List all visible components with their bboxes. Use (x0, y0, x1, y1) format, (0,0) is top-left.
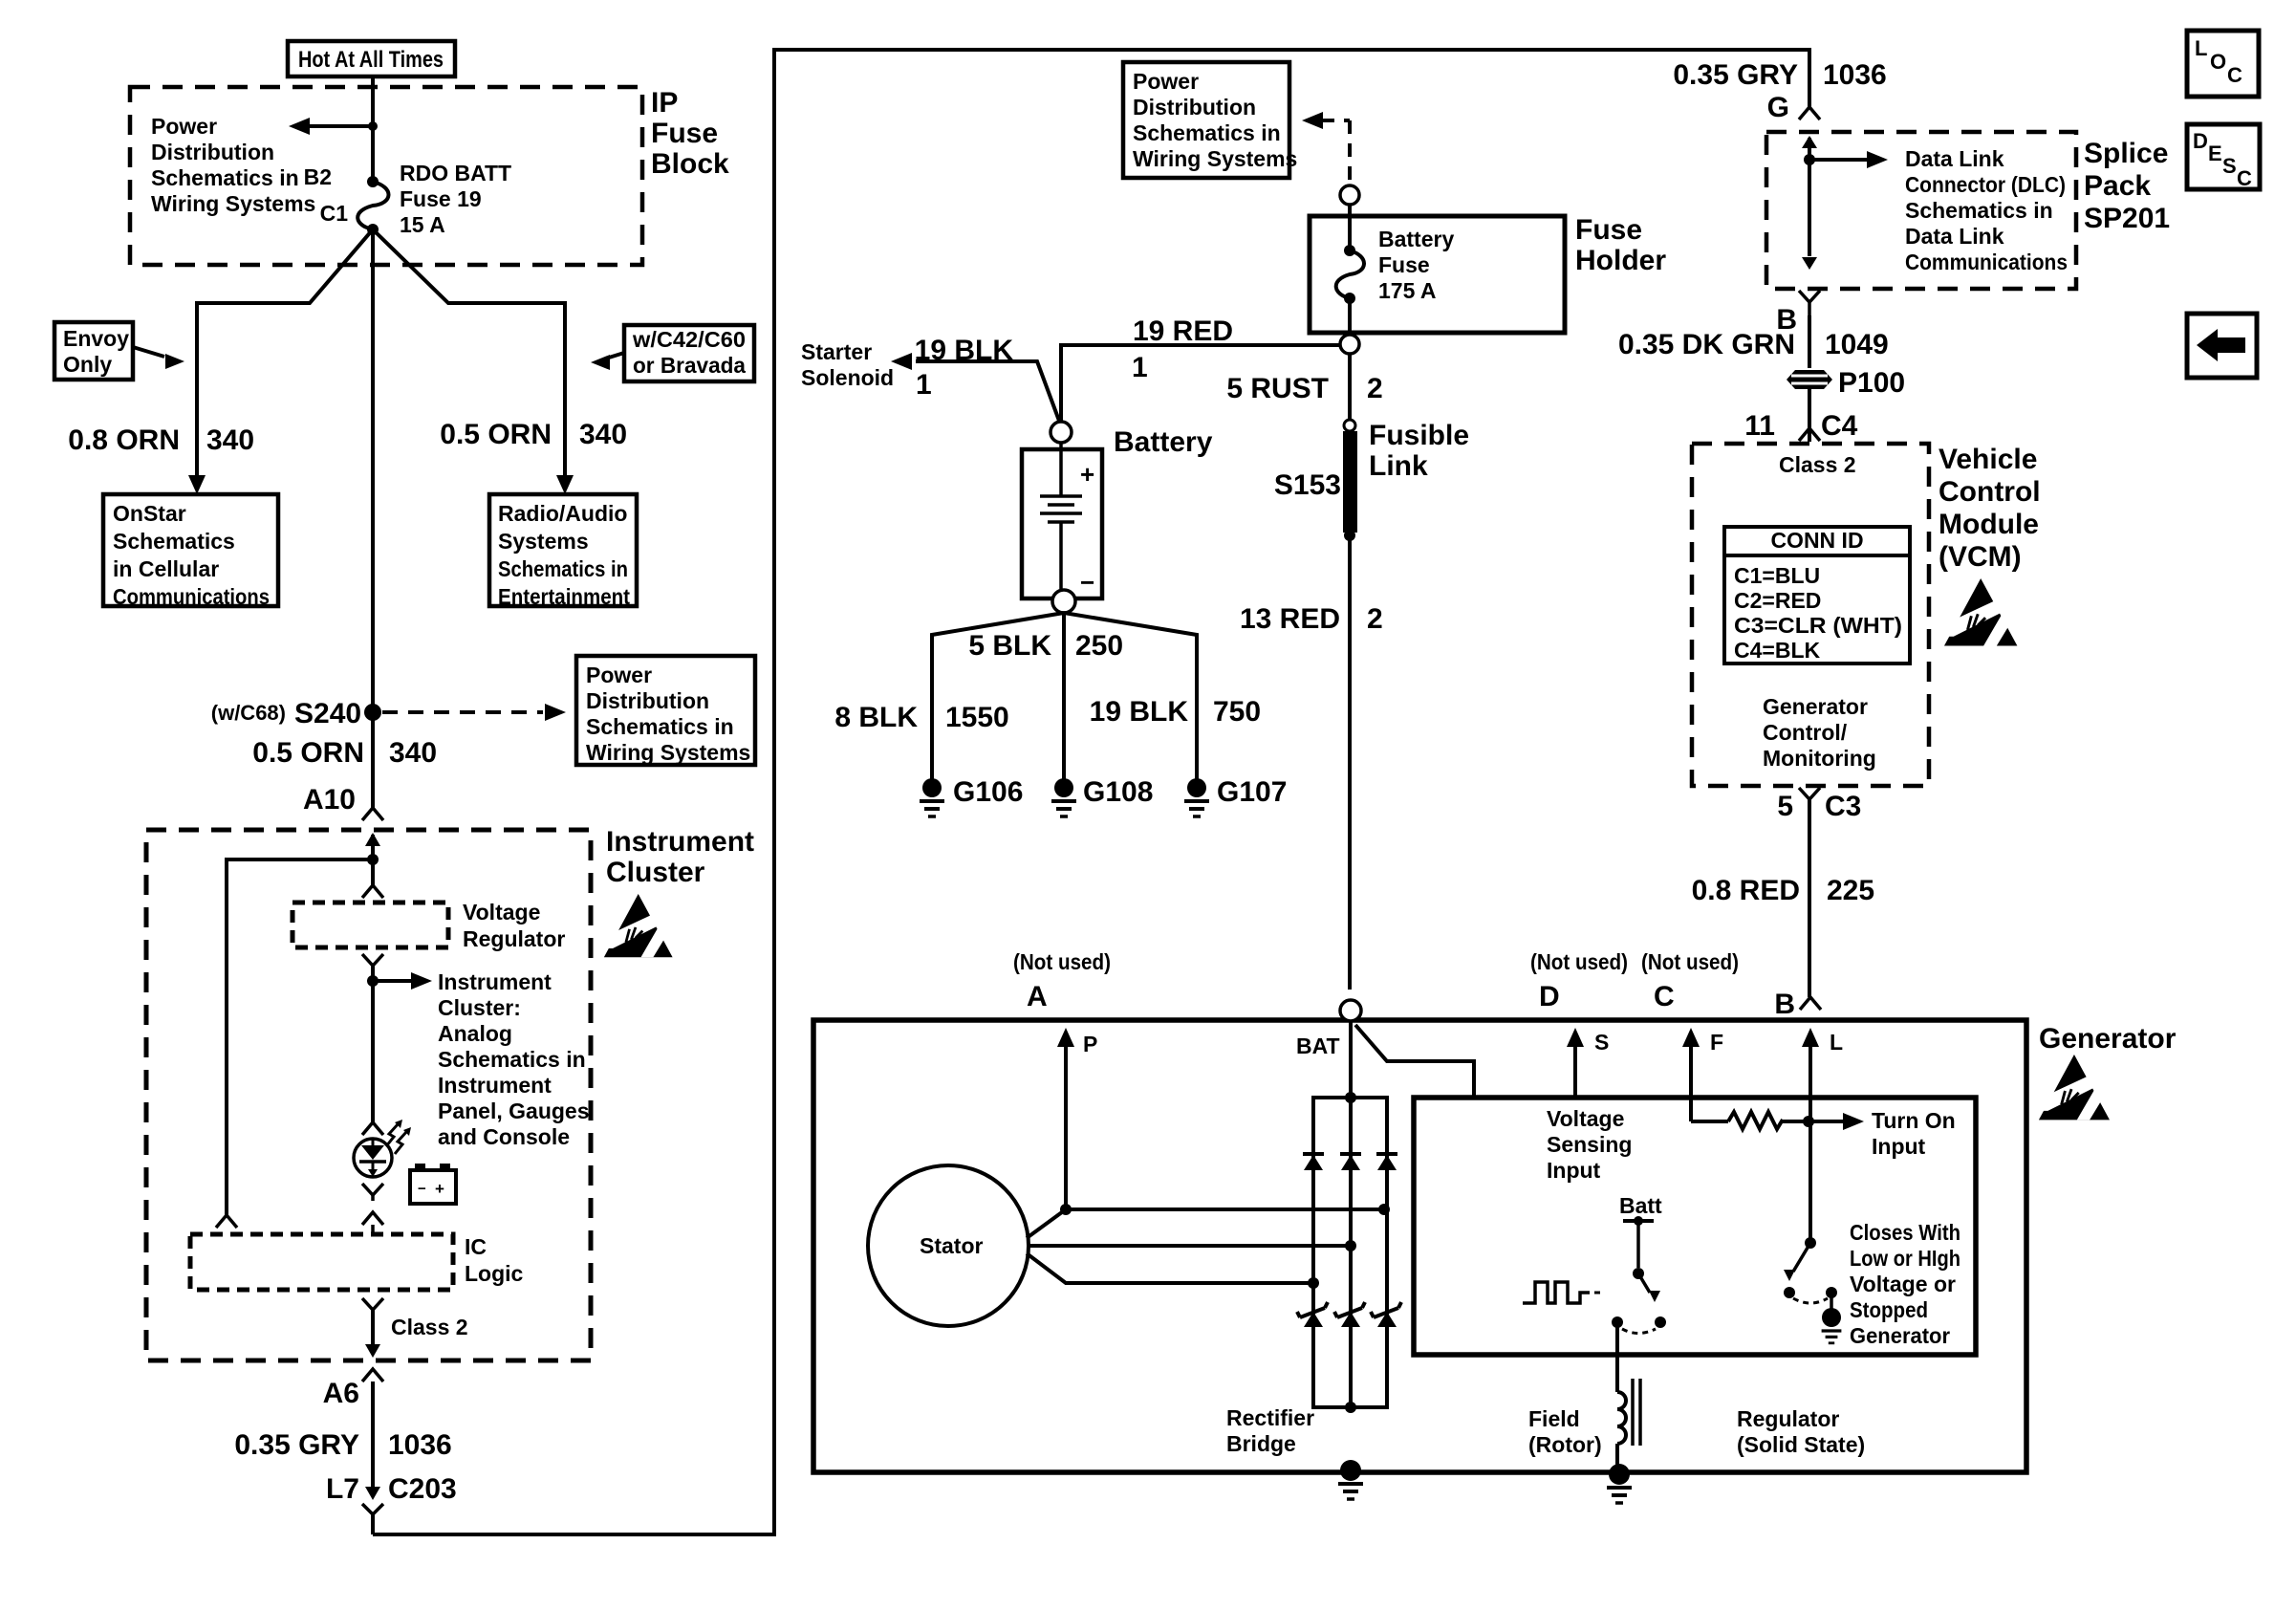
svg-text:Schematics in: Schematics in (1133, 120, 1281, 145)
field coil wire (1615, 1322, 1619, 1392)
ground G107 (1187, 778, 1206, 797)
svg-text:G108: G108 (1083, 776, 1153, 808)
svg-text:1036: 1036 (1823, 59, 1887, 91)
wire from C203 to splice pack G (long frame) (373, 50, 1809, 1534)
node Envoy Only (54, 322, 133, 380)
svg-text:Holder: Holder (1575, 245, 1666, 276)
svg-text:w/C42/C60: w/C42/C60 (632, 327, 746, 352)
wire to P100 (1808, 315, 1811, 368)
node LOC box (2187, 31, 2259, 97)
ground (rectifier/BAT) (1340, 1460, 1361, 1481)
svg-text:0.35 GRY: 0.35 GRY (1673, 59, 1798, 91)
node w/C42/C60 or Bravada (624, 325, 754, 381)
svg-text:Schematics in: Schematics in (151, 165, 299, 190)
svg-text:−: − (418, 1181, 426, 1197)
svg-text:Link: Link (1369, 450, 1428, 482)
battery B+ (1022, 449, 1102, 598)
svg-text:Connector (DLC): Connector (DLC) (1905, 172, 2066, 197)
svg-text:P: P (1083, 1032, 1097, 1056)
svg-text:Panel, Gauges: Panel, Gauges (438, 1099, 590, 1123)
svg-text:Instrument: Instrument (606, 826, 754, 858)
svg-text:13 RED: 13 RED (1240, 603, 1340, 635)
svg-text:Analog: Analog (438, 1021, 512, 1046)
svg-text:(w/C68): (w/C68) (211, 701, 286, 725)
svg-text:O: O (2210, 50, 2226, 74)
node OnStar Schematics in Cellular Communications (103, 494, 278, 606)
rectifier diodes bottom row (avalanche) (1297, 1302, 1328, 1317)
svg-text:Sensing: Sensing (1547, 1132, 1632, 1157)
svg-text:0.5 ORN: 0.5 ORN (252, 737, 364, 769)
svg-text:C: C (2227, 63, 2242, 87)
connector P100 grommet (1787, 370, 1832, 389)
switch (field drive) (1636, 1221, 1640, 1268)
wire below P100 (1808, 389, 1811, 442)
svg-text:L: L (2195, 36, 2207, 60)
svg-text:RDO BATT: RDO BATT (400, 161, 511, 185)
switch (closes with low/high voltage) (1805, 1237, 1816, 1249)
svg-text:Regulator: Regulator (1737, 1406, 1839, 1431)
battery charge telltale icon (410, 1170, 456, 1204)
svg-text:and Console: and Console (438, 1124, 570, 1149)
wire C1 right branch to Radio (373, 229, 565, 480)
svg-text:Cluster: Cluster (606, 857, 705, 888)
svg-text:Turn On: Turn On (1872, 1108, 1956, 1133)
ground G108 (1054, 778, 1073, 797)
svg-text:Stator: Stator (920, 1233, 984, 1258)
node CONN ID table (1724, 527, 1910, 664)
F arrow (1689, 1037, 1693, 1098)
connector into VCM (1799, 428, 1820, 441)
svg-text:1049: 1049 (1825, 329, 1889, 360)
svg-text:CONN ID: CONN ID (1770, 528, 1863, 553)
svg-text:Data Link: Data Link (1905, 224, 2004, 249)
connector A10 (362, 808, 383, 820)
wire 19 RED (1061, 345, 1340, 422)
svg-text:225: 225 (1827, 875, 1874, 906)
PWM control glyph (1523, 1282, 1590, 1303)
svg-text:C4=BLK: C4=BLK (1734, 638, 1820, 663)
svg-text:250: 250 (1075, 630, 1123, 662)
wire BAT to regulator (1355, 1025, 1474, 1098)
svg-text:Generator: Generator (1850, 1323, 1950, 1348)
svg-text:Schematics: Schematics (113, 529, 235, 554)
svg-text:Fuse 19: Fuse 19 (400, 186, 482, 211)
node Radio/Audio Systems Schematics in Entertainment (489, 494, 637, 606)
svg-text:Generator: Generator (2039, 1023, 2177, 1055)
svg-text:Battery: Battery (1114, 426, 1213, 458)
svg-text:Starter: Starter (801, 339, 872, 364)
svg-text:Pack: Pack (2084, 170, 2151, 202)
L arrow (1809, 1037, 1812, 1098)
battery bottom terminal (1052, 590, 1075, 613)
connector below voltage regulator (362, 954, 383, 966)
svg-text:340: 340 (206, 424, 254, 456)
node back-arrow box (2187, 314, 2257, 378)
svg-text:Distribution: Distribution (586, 688, 709, 713)
connector ring below fuse holder (1340, 335, 1359, 354)
svg-text:(Rotor): (Rotor) (1528, 1432, 1602, 1457)
svg-text:Class 2: Class 2 (1779, 452, 1856, 477)
svg-text:Block: Block (651, 148, 729, 180)
svg-text:C1: C1 (320, 201, 349, 226)
junction and left branch inside cluster (367, 854, 379, 865)
svg-text:A: A (1027, 981, 1048, 1012)
ESD symbol (instrument cluster) (602, 894, 673, 957)
svg-text:C1=BLU: C1=BLU (1734, 563, 1820, 588)
connector G (1799, 107, 1820, 120)
fuse Battery Fuse 175 A (1348, 205, 1352, 250)
svg-text:750: 750 (1213, 696, 1261, 728)
rectifier diodes top row (1303, 1152, 1324, 1156)
svg-text:Control/: Control/ (1763, 720, 1848, 745)
svg-text:Rectifier: Rectifier (1226, 1405, 1314, 1430)
resistor and turn-on input (1689, 1098, 1693, 1121)
wire Envoy arrow (133, 347, 164, 357)
svg-text:Bridge: Bridge (1226, 1431, 1296, 1456)
svg-text:G: G (1767, 92, 1789, 123)
wire Bravada arrow (609, 353, 624, 358)
svg-text:Distribution: Distribution (151, 140, 274, 164)
svg-text:8 BLK: 8 BLK (834, 702, 918, 733)
node Power Distribution Schematics in Wiring Systems (S240) (576, 656, 755, 765)
svg-text:1: 1 (1132, 352, 1148, 383)
connector below VCM (1799, 788, 1820, 799)
svg-text:G106: G106 (953, 776, 1023, 808)
svg-text:340: 340 (579, 419, 627, 450)
svg-text:L7: L7 (326, 1473, 359, 1505)
node Voltage Regulator (solid state) box (1414, 1098, 1976, 1355)
connector below splice pack (1799, 291, 1820, 302)
battery cell plates (1059, 443, 1063, 496)
svg-text:C3=CLR (WHT): C3=CLR (WHT) (1734, 613, 1902, 638)
svg-text:Entertainment: Entertainment (498, 584, 630, 609)
svg-text:L: L (1830, 1030, 1843, 1055)
svg-text:Schematics in: Schematics in (1905, 198, 2053, 223)
svg-text:Systems: Systems (498, 529, 589, 554)
svg-text:C: C (1654, 981, 1675, 1012)
svg-text:Radio/Audio: Radio/Audio (498, 501, 627, 526)
svg-text:S240: S240 (294, 698, 361, 729)
svg-text:1: 1 (916, 369, 932, 401)
svg-text:Input: Input (1547, 1158, 1601, 1183)
svg-text:E: E (2208, 141, 2222, 165)
svg-text:Low or HIgh: Low or HIgh (1850, 1246, 1960, 1271)
svg-text:C3: C3 (1825, 791, 1861, 822)
svg-text:Wiring Systems: Wiring Systems (151, 191, 315, 216)
node Generator box (813, 1020, 2026, 1472)
wire dashed to power distribution (fuse holder) (1302, 112, 1323, 129)
LED indicator symbol (354, 1139, 392, 1177)
svg-text:Fuse: Fuse (1575, 214, 1642, 246)
svg-text:Cluster:: Cluster: (438, 995, 521, 1020)
svg-text:2: 2 (1367, 603, 1383, 635)
ground G106 (922, 778, 942, 797)
wire to fusible link (1348, 354, 1352, 421)
field coil (1617, 1392, 1626, 1444)
node Power Distribution Schematics in Wiring Systems (fuse holder) (1123, 62, 1289, 178)
ESD symbol (generator) (2037, 1055, 2110, 1120)
svg-text:1550: 1550 (945, 702, 1009, 733)
connector left branch (216, 1215, 237, 1228)
wire battery grounds (932, 613, 1064, 779)
node Vehicle Control Module dashed box (1692, 444, 1929, 786)
svg-text:S: S (2222, 154, 2237, 178)
svg-text:−: − (1080, 568, 1094, 597)
svg-text:S: S (1594, 1030, 1609, 1055)
battery top terminal (1051, 422, 1072, 443)
svg-text:15 A: 15 A (400, 212, 445, 237)
svg-text:Wiring Systems: Wiring Systems (1133, 146, 1297, 171)
svg-text:Voltage or: Voltage or (1850, 1272, 1956, 1296)
svg-text:19 RED: 19 RED (1133, 315, 1233, 347)
svg-text:D: D (1539, 981, 1560, 1012)
svg-text:Monitoring: Monitoring (1763, 746, 1876, 771)
svg-text:Input: Input (1872, 1134, 1926, 1159)
wire C1 left branch to OnStar (197, 229, 373, 480)
svg-text:A10: A10 (303, 784, 356, 816)
svg-text:C4: C4 (1821, 410, 1858, 442)
node Fuse Holder box (1310, 216, 1565, 333)
fuse RDO BATT Fuse 19 15 A (367, 176, 379, 187)
svg-text:or Bravada: or Bravada (633, 353, 746, 378)
IP Fuse Block dashed box (130, 87, 642, 265)
ground (field) (1609, 1464, 1630, 1485)
node Voltage Regulator dashed box (292, 903, 448, 947)
svg-text:340: 340 (389, 737, 437, 769)
wire 13 RED (1348, 538, 1352, 990)
svg-text:G107: G107 (1217, 776, 1287, 808)
svg-text:Schematics in: Schematics in (438, 1047, 586, 1072)
wire dashed arrow S240 to power distribution (382, 710, 543, 714)
svg-text:Fuse: Fuse (1378, 252, 1430, 277)
svg-text:(Not used): (Not used) (1530, 949, 1628, 974)
svg-text:5: 5 (1777, 791, 1793, 822)
S arrow (1573, 1037, 1577, 1098)
svg-text:Power: Power (151, 114, 217, 139)
stator phase wires (1027, 1209, 1384, 1238)
svg-text:IC: IC (465, 1234, 487, 1259)
svg-text:Instrument: Instrument (438, 1073, 552, 1098)
wire inside splice pack (1802, 136, 1817, 148)
svg-text:B: B (1774, 989, 1795, 1020)
svg-text:IP: IP (651, 87, 678, 119)
svg-text:Distribution: Distribution (1133, 95, 1256, 120)
svg-text:Module: Module (1939, 509, 2039, 540)
svg-text:Generator: Generator (1763, 694, 1868, 719)
svg-text:Closes With: Closes With (1850, 1220, 1960, 1245)
svg-text:A6: A6 (323, 1378, 359, 1409)
svg-text:0.8 ORN: 0.8 ORN (68, 424, 180, 456)
svg-text:Batt: Batt (1619, 1193, 1662, 1218)
svg-text:+: + (435, 1180, 444, 1198)
P arrow (1064, 1037, 1068, 1209)
svg-text:OnStar: OnStar (113, 501, 186, 526)
wire to voltage regulator (371, 859, 375, 885)
svg-text:C203: C203 (388, 1473, 457, 1505)
svg-text:5 BLK: 5 BLK (968, 630, 1051, 662)
rectifier bridge rails (1313, 1098, 1387, 1407)
svg-text:Fusible: Fusible (1369, 420, 1469, 451)
svg-text:0.35 DK GRN: 0.35 DK GRN (1618, 329, 1795, 360)
svg-text:1036: 1036 (388, 1429, 452, 1461)
svg-text:(VCM): (VCM) (1939, 541, 2022, 573)
svg-text:Wiring Systems: Wiring Systems (586, 740, 750, 765)
wire C1 center down (371, 229, 375, 808)
svg-text:0.5 ORN: 0.5 ORN (440, 419, 552, 450)
svg-text:(Not used): (Not used) (1641, 949, 1739, 974)
svg-text:Instrument: Instrument (438, 969, 552, 994)
svg-text:Voltage: Voltage (1547, 1106, 1624, 1131)
svg-text:B2: B2 (304, 164, 332, 189)
svg-text:Power: Power (586, 663, 652, 687)
node IC Logic dashed box (190, 1234, 453, 1290)
svg-text:BAT: BAT (1296, 1033, 1340, 1058)
wire A6 down (362, 1369, 383, 1382)
svg-text:D: D (2193, 129, 2208, 153)
svg-text:Schematics in: Schematics in (498, 556, 628, 581)
LED light arrows (386, 1123, 399, 1146)
Instrument Cluster dashed box (146, 830, 591, 1360)
svg-text:C: C (2237, 166, 2252, 190)
wire arrow to power distribution (308, 124, 373, 128)
node Hot At All Times (288, 41, 455, 76)
svg-text:11: 11 (1744, 410, 1775, 442)
svg-text:Voltage: Voltage (463, 900, 540, 925)
svg-text:Solenoid: Solenoid (801, 365, 894, 390)
svg-text:(Not used): (Not used) (1013, 949, 1111, 974)
svg-text:+: + (1080, 460, 1094, 489)
svg-text:Class 2: Class 2 (391, 1315, 468, 1339)
connector C203 (365, 1487, 380, 1500)
wire hot-at-all-times to fuse 19 (371, 76, 375, 182)
svg-text:Hot At All Times: Hot At All Times (298, 47, 444, 73)
svg-text:C2=RED: C2=RED (1734, 588, 1821, 613)
svg-text:Envoy: Envoy (63, 326, 129, 351)
connector below IC logic (362, 1298, 383, 1310)
connector pair below LED (362, 1184, 383, 1195)
node DESC box (2187, 124, 2260, 189)
fusible link S153 (1344, 420, 1355, 431)
svg-text:Control: Control (1939, 476, 2041, 508)
svg-text:Logic: Logic (465, 1261, 524, 1286)
connector ring above fuse holder (1340, 185, 1359, 205)
svg-text:Vehicle: Vehicle (1939, 444, 2037, 475)
svg-text:Communications: Communications (1905, 250, 2068, 274)
svg-text:P100: P100 (1838, 367, 1905, 399)
svg-text:Fuse: Fuse (651, 118, 718, 149)
svg-text:Field: Field (1528, 1406, 1580, 1431)
junction arrow to instrument cluster analog note (367, 975, 379, 987)
stator circle (868, 1165, 1029, 1326)
svg-text:Splice: Splice (2084, 138, 2168, 169)
wire 19 BLK to starter solenoid (916, 361, 1059, 421)
svg-text:175 A: 175 A (1378, 278, 1437, 303)
node Splice Pack SP201 dashed box (1766, 132, 2076, 289)
svg-text:Power: Power (1133, 69, 1199, 94)
svg-text:Schematics in: Schematics in (586, 714, 734, 739)
svg-text:19 BLK: 19 BLK (915, 335, 1014, 366)
svg-text:F: F (1710, 1030, 1723, 1055)
svg-text:SP201: SP201 (2084, 203, 2170, 234)
svg-text:(Solid State): (Solid State) (1737, 1432, 1865, 1457)
svg-text:Regulator: Regulator (463, 926, 565, 951)
svg-text:19 BLK: 19 BLK (1090, 696, 1189, 728)
svg-text:0.35 GRY: 0.35 GRY (234, 1429, 359, 1461)
svg-text:Stopped: Stopped (1850, 1297, 1928, 1322)
svg-text:Communications: Communications (113, 584, 270, 609)
svg-text:Battery: Battery (1378, 227, 1454, 251)
svg-text:5 RUST: 5 RUST (1226, 373, 1329, 404)
ESD symbol (VCM) (1942, 578, 2017, 646)
svg-text:Only: Only (63, 352, 112, 377)
wire L down to switch (1809, 1098, 1812, 1243)
svg-text:S153: S153 (1274, 469, 1341, 501)
svg-text:in Cellular: in Cellular (113, 556, 219, 581)
connector above LED (362, 1122, 383, 1135)
connector BAT ring (1340, 1000, 1361, 1021)
svg-text:Data Link: Data Link (1905, 146, 2004, 171)
wire BAT down (1349, 1021, 1353, 1407)
svg-text:0.8 RED: 0.8 RED (1692, 875, 1800, 906)
svg-text:2: 2 (1367, 373, 1383, 404)
